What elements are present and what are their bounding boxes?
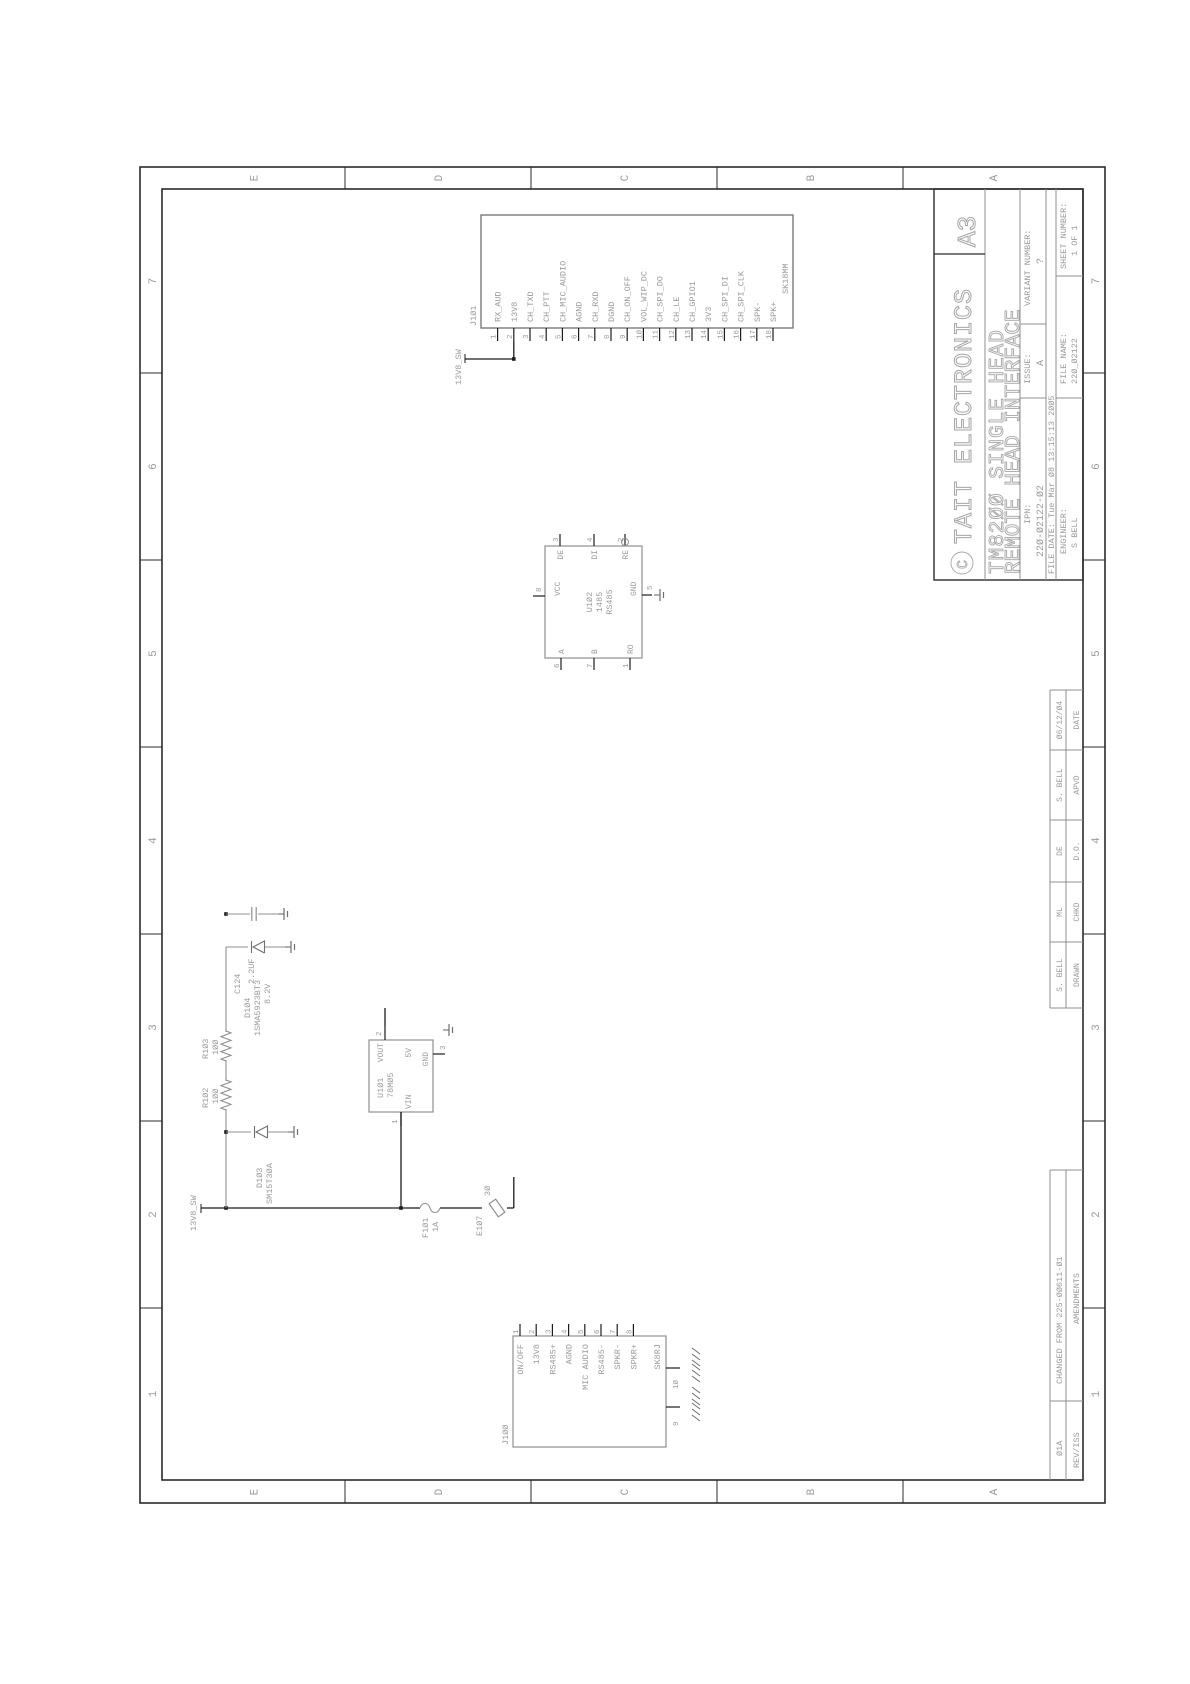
svg-text:A3: A3	[953, 216, 983, 247]
svg-text:J1ØØ: J1ØØ	[501, 1425, 511, 1445]
svg-text:B: B	[806, 174, 818, 181]
svg-text:RS485: RS485	[605, 589, 615, 615]
svg-text:DATE: DATE	[1073, 710, 1082, 729]
svg-text:1ØØ: 1ØØ	[211, 1089, 221, 1104]
svg-text:3: 3	[545, 1329, 553, 1334]
svg-text:CH_SPI_DO: CH_SPI_DO	[656, 276, 666, 322]
svg-text:D1Ø3: D1Ø3	[255, 1168, 265, 1188]
svg-text:1ØØ: 1ØØ	[211, 1040, 221, 1055]
svg-text:C: C	[620, 174, 632, 181]
svg-text:7: 7	[148, 278, 160, 285]
svg-text:VARIANT NUMBER:: VARIANT NUMBER:	[1023, 229, 1033, 306]
svg-text:SPK-: SPK-	[753, 302, 763, 322]
svg-text:1: 1	[513, 1329, 521, 1334]
svg-text:AGND: AGND	[575, 302, 585, 322]
svg-text:SPKR-: SPKR-	[613, 1344, 623, 1370]
svg-text:D: D	[434, 174, 446, 181]
svg-text:18: 18	[766, 330, 774, 339]
svg-text:MIC AUDIO: MIC AUDIO	[581, 1344, 591, 1390]
svg-text:1SMA5923BT3: 1SMA5923BT3	[253, 980, 263, 1036]
svg-text:RS485-: RS485-	[597, 1344, 607, 1375]
svg-text:3: 3	[1091, 1024, 1103, 1031]
svg-text:22Ø-Ø2122-Ø2: 22Ø-Ø2122-Ø2	[1035, 485, 1047, 557]
svg-text:1: 1	[392, 1119, 400, 1124]
svg-text:D: D	[434, 1488, 446, 1495]
svg-text:SK18MM: SK18MM	[781, 263, 791, 294]
svg-text:E: E	[250, 1488, 262, 1495]
svg-text:ENGINEER:: ENGINEER:	[1059, 508, 1069, 554]
svg-text:2: 2	[148, 1211, 160, 1218]
svg-text:DRAWN: DRAWN	[1073, 963, 1082, 987]
svg-text:7: 7	[587, 663, 595, 668]
svg-text:VOL_WIP_DC: VOL_WIP_DC	[639, 271, 649, 322]
svg-text:2: 2	[1091, 1211, 1103, 1218]
svg-text:R1Ø3: R1Ø3	[201, 1039, 211, 1059]
svg-text:CH_SPI_DI: CH_SPI_DI	[720, 276, 730, 322]
svg-text:2: 2	[376, 1031, 384, 1036]
svg-text:U1Ø2: U1Ø2	[585, 592, 595, 612]
svg-text:SM15T3ØA: SM15T3ØA	[265, 1162, 275, 1204]
svg-text:13: 13	[685, 329, 693, 339]
svg-text:A: A	[989, 1488, 1001, 1495]
svg-text:ML: ML	[1056, 907, 1065, 917]
svg-text:2: 2	[507, 334, 515, 339]
svg-text:1: 1	[491, 334, 499, 339]
svg-text:CH_LE: CH_LE	[672, 296, 682, 322]
svg-text:13V8_SW: 13V8_SW	[189, 1194, 199, 1231]
svg-text:1: 1	[148, 1390, 160, 1397]
svg-text:SPK+: SPK+	[769, 302, 779, 322]
svg-text:5: 5	[578, 1329, 586, 1334]
svg-text:CH_MIC_AUDIO: CH_MIC_AUDIO	[558, 261, 568, 322]
svg-text:AGND: AGND	[565, 1344, 575, 1364]
svg-text:7: 7	[610, 1329, 618, 1334]
svg-text:5V: 5V	[405, 1048, 414, 1058]
svg-text:S. BELL: S. BELL	[1056, 768, 1065, 802]
svg-text:17: 17	[750, 330, 758, 339]
svg-text:D1Ø4: D1Ø4	[243, 998, 253, 1018]
svg-text:SK8RJ: SK8RJ	[653, 1344, 663, 1370]
svg-text:1: 1	[1091, 1390, 1103, 1397]
svg-text:7: 7	[1091, 278, 1103, 285]
svg-text:B: B	[591, 649, 600, 654]
svg-text:3: 3	[440, 1045, 448, 1050]
svg-text:?: ?	[1036, 258, 1047, 264]
svg-text:11: 11	[653, 329, 661, 339]
svg-text:3: 3	[523, 334, 531, 339]
svg-text:4: 4	[562, 1329, 570, 1334]
svg-text:DE: DE	[557, 550, 566, 560]
svg-text:1A: 1A	[431, 1221, 441, 1232]
svg-text:8.2V: 8.2V	[263, 983, 273, 1004]
svg-text:B: B	[806, 1488, 818, 1495]
svg-text:U1Ø1: U1Ø1	[376, 1078, 386, 1098]
svg-text:FILE NAME:: FILE NAME:	[1059, 333, 1069, 384]
svg-text:RO: RO	[627, 644, 636, 654]
svg-text:12: 12	[669, 330, 677, 339]
svg-text:GND: GND	[422, 1052, 431, 1067]
svg-text:A: A	[558, 649, 567, 654]
svg-text:15: 15	[717, 329, 725, 339]
svg-text:1Ø: 1Ø	[672, 1379, 681, 1389]
svg-text:9: 9	[673, 1421, 681, 1426]
svg-text:DI: DI	[591, 550, 600, 560]
svg-text:A: A	[989, 174, 1001, 181]
svg-text:8: 8	[604, 334, 612, 339]
svg-text:5: 5	[647, 585, 655, 590]
svg-text:ISSUE:: ISSUE:	[1023, 353, 1033, 384]
svg-text:CH_PTT: CH_PTT	[542, 291, 552, 322]
svg-text:FILE DATE: Tue Mar Ø8 13:15:13: FILE DATE: Tue Mar Ø8 13:15:13 2ØØ5	[1047, 395, 1057, 574]
svg-text:6: 6	[148, 463, 160, 470]
svg-text:22Ø_Ø2122: 22Ø_Ø2122	[1070, 338, 1080, 384]
svg-text:CH_GPIO1: CH_GPIO1	[688, 281, 698, 322]
svg-text:5: 5	[1091, 650, 1103, 657]
svg-text:C: C	[620, 1488, 632, 1495]
svg-text:CH_RXD: CH_RXD	[591, 291, 601, 322]
svg-text:4: 4	[148, 837, 160, 844]
svg-text:RE: RE	[622, 550, 631, 560]
svg-text:78MØ5: 78MØ5	[386, 1072, 396, 1098]
svg-text:14: 14	[701, 329, 709, 339]
svg-text:6: 6	[554, 663, 562, 668]
svg-text:4: 4	[539, 334, 547, 339]
svg-text:E: E	[250, 174, 262, 181]
svg-text:13V8_SW: 13V8_SW	[454, 348, 464, 385]
svg-text:1485: 1485	[595, 592, 605, 612]
svg-text:VIN: VIN	[405, 1094, 414, 1109]
svg-text:ON/OFF: ON/OFF	[516, 1344, 526, 1375]
svg-text:CHKD: CHKD	[1073, 902, 1082, 921]
svg-text:SPKR+: SPKR+	[629, 1344, 639, 1370]
svg-text:3Ø: 3Ø	[483, 1186, 493, 1196]
svg-text:RX_AUD: RX_AUD	[494, 291, 504, 322]
svg-text:3: 3	[148, 1024, 160, 1031]
svg-text:E1Ø7: E1Ø7	[475, 1216, 485, 1236]
svg-text:SHEET NUMBER:: SHEET NUMBER:	[1059, 203, 1069, 269]
svg-text:1Ø: 1Ø	[635, 329, 644, 339]
svg-text:1 OF 1: 1 OF 1	[1070, 225, 1080, 256]
svg-text:13V8: 13V8	[532, 1344, 542, 1364]
svg-text:Ø1A: Ø1A	[1055, 1440, 1065, 1456]
svg-text:DE: DE	[1056, 846, 1065, 856]
svg-text:CHANGED FROM 225-ØØ611-Ø1: CHANGED FROM 225-ØØ611-Ø1	[1055, 1256, 1065, 1384]
svg-text:REV/ISS: REV/ISS	[1072, 1432, 1082, 1468]
svg-text:9: 9	[620, 334, 628, 339]
svg-text:C124: C124	[233, 974, 243, 994]
svg-text:AMENDMENTS: AMENDMENTS	[1072, 1273, 1082, 1324]
svg-text:3: 3	[553, 537, 561, 542]
svg-text:RS485+: RS485+	[548, 1344, 558, 1375]
svg-text:16: 16	[734, 329, 742, 339]
svg-text:J1Ø1: J1Ø1	[469, 306, 479, 326]
svg-text:13V8: 13V8	[510, 302, 520, 322]
svg-text:R1Ø2: R1Ø2	[201, 1088, 211, 1108]
svg-text:GND: GND	[630, 581, 639, 596]
svg-text:CH_TXD: CH_TXD	[526, 291, 536, 322]
svg-text:4: 4	[1091, 837, 1103, 844]
svg-text:Ø6/12/Ø4: Ø6/12/Ø4	[1056, 701, 1065, 740]
svg-text:CH_ON_OFF: CH_ON_OFF	[623, 276, 633, 322]
svg-text:APVD: APVD	[1073, 775, 1082, 794]
svg-text:2: 2	[529, 1329, 537, 1334]
svg-text:3V3: 3V3	[704, 307, 714, 322]
svg-text:CH_SPI_CLK: CH_SPI_CLK	[737, 270, 747, 322]
svg-text:2.2UF: 2.2UF	[247, 958, 257, 984]
svg-text:D.O.: D.O.	[1073, 841, 1082, 860]
svg-text:8: 8	[626, 1329, 634, 1334]
svg-text:TAIT ELECTRONICS: TAIT ELECTRONICS	[950, 288, 979, 544]
svg-text:6: 6	[572, 334, 580, 339]
svg-text:4: 4	[587, 537, 595, 542]
svg-text:S. BELL: S. BELL	[1056, 958, 1065, 992]
svg-text:DGND: DGND	[607, 302, 617, 322]
svg-text:5: 5	[148, 650, 160, 657]
svg-text:C: C	[955, 560, 972, 569]
svg-text:8: 8	[536, 587, 544, 592]
svg-text:VCC: VCC	[554, 581, 563, 596]
svg-text:7: 7	[588, 334, 596, 339]
svg-text:S BELL: S BELL	[1070, 517, 1080, 548]
svg-text:6: 6	[594, 1329, 602, 1334]
svg-text:VOUT: VOUT	[377, 1043, 386, 1062]
svg-text:F1Ø1: F1Ø1	[421, 1218, 431, 1238]
svg-text:1: 1	[623, 663, 631, 668]
svg-text:IPN:: IPN:	[1023, 504, 1033, 524]
svg-text:5: 5	[555, 334, 563, 339]
svg-text:A: A	[1036, 360, 1047, 366]
svg-text:REMOTE HEAD INTERFACE: REMOTE HEAD INTERFACE	[1003, 309, 1026, 574]
svg-text:6: 6	[1091, 463, 1103, 470]
